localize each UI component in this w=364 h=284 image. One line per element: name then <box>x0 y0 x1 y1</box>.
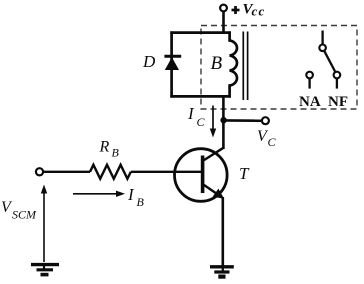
svg-text:D: D <box>142 52 156 71</box>
svg-text:NA: NA <box>299 94 321 110</box>
relay coil B <box>230 31 237 97</box>
svg-text:C: C <box>197 115 206 129</box>
wire resistor to base <box>131 171 203 173</box>
current arrow IB <box>73 191 125 197</box>
transistor T <box>175 148 228 201</box>
node junction at Vc tap <box>220 117 226 123</box>
svg-text:B: B <box>137 195 145 209</box>
resistor RB <box>90 165 131 179</box>
svg-text:I: I <box>187 104 195 123</box>
contact NA <box>306 72 313 79</box>
wire bottom rail <box>170 95 231 98</box>
terminal input left <box>36 168 43 175</box>
wire top rail <box>170 31 231 34</box>
wire NF stub <box>336 78 338 88</box>
wire terminal to resistor <box>43 171 90 173</box>
svg-text:T: T <box>239 164 250 183</box>
ground (emitter) <box>210 267 234 277</box>
svg-text:SCM: SCM <box>12 208 37 222</box>
wire NA stub <box>308 78 310 88</box>
wire Vcc to top rail <box>222 11 225 33</box>
relay core lines <box>242 32 244 101</box>
wire coil bottom to collector <box>222 96 225 149</box>
label +Vcc <box>232 9 240 12</box>
diode D <box>164 56 181 70</box>
relay pivot contact <box>319 45 326 52</box>
voltage arrow Vscm <box>41 185 47 263</box>
svg-text:B: B <box>211 53 223 74</box>
+Vcc terminal <box>220 5 227 12</box>
wire left branch (diode branch) <box>170 31 173 97</box>
svg-text:R: R <box>99 139 110 156</box>
current arrow Ic <box>210 106 216 138</box>
svg-text:C: C <box>268 135 277 149</box>
relay switch arm <box>324 51 335 72</box>
wire junction to Vc terminal <box>223 119 261 122</box>
relay dashed enclosure <box>201 26 357 110</box>
ground (source) <box>31 265 59 275</box>
relay common stub <box>321 31 323 45</box>
svg-text:I: I <box>127 185 135 204</box>
contact NF <box>334 72 341 79</box>
svg-text:NF: NF <box>328 94 348 110</box>
wire emitter down <box>222 197 225 266</box>
svg-text:cc: cc <box>252 4 266 19</box>
svg-text:B: B <box>112 146 120 160</box>
terminal Vc <box>262 117 269 124</box>
